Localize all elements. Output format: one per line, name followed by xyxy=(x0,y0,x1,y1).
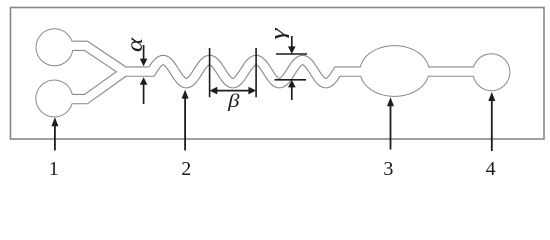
svg-text:β: β xyxy=(227,90,240,112)
outlet reservoir 4 outer xyxy=(472,53,510,91)
chamber 3 outer xyxy=(359,45,429,97)
beta dimension line xyxy=(215,90,251,92)
outlet interior xyxy=(473,54,509,90)
chamber interior xyxy=(360,46,428,96)
channel walls: gray underlay xyxy=(54,46,477,99)
alpha arrows xyxy=(143,45,145,60)
svg-text:3: 3 xyxy=(383,158,393,180)
arrow 3 xyxy=(390,105,392,150)
inlet reservoir 1 (top) outer xyxy=(36,28,74,66)
arrow 2 xyxy=(184,97,186,150)
svg-text:2: 2 xyxy=(181,158,191,180)
channel interiors: white overlay xyxy=(54,46,477,99)
gamma ticks xyxy=(276,53,307,55)
arrow 4 xyxy=(491,100,493,152)
inlet reservoir interiors xyxy=(37,29,73,65)
svg-text:1: 1 xyxy=(49,158,59,180)
gamma arrows xyxy=(291,36,293,48)
chip outline xyxy=(11,8,545,140)
beta extension bars xyxy=(209,48,211,97)
arrow 1 xyxy=(54,125,56,151)
inlet reservoir 1 (bottom) outer xyxy=(35,80,73,118)
microfluidic chip schematic xyxy=(0,0,550,181)
svg-text:4: 4 xyxy=(486,158,496,180)
svg-text:γ: γ xyxy=(267,27,289,40)
